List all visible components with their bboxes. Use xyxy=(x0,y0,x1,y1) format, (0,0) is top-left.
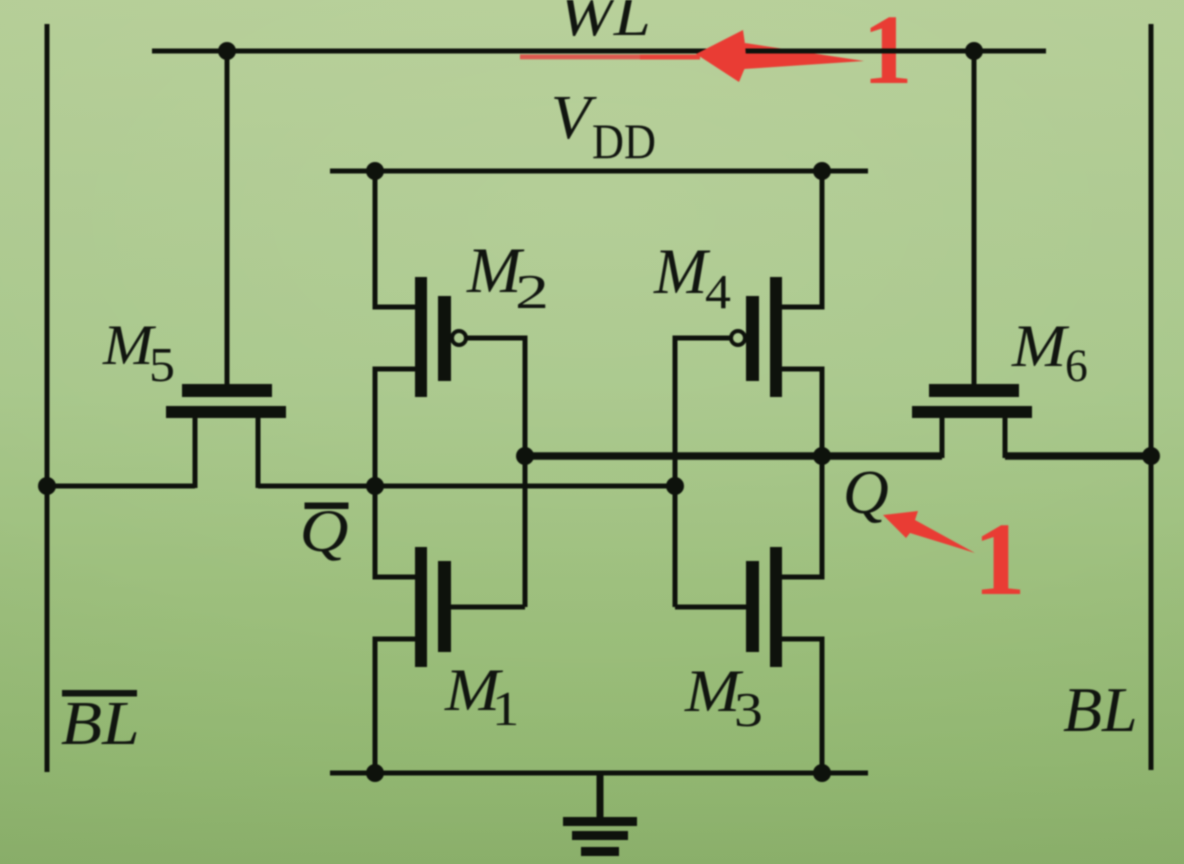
svg-text:Q: Q xyxy=(300,498,349,564)
wire Qbar main (M5 to M4 gate) xyxy=(258,484,680,489)
node BLbar-Qbar junction xyxy=(38,477,56,495)
wire M5 left stub xyxy=(193,418,198,488)
transistor M1 channel plate xyxy=(415,547,427,667)
wire BLbar vertical xyxy=(45,24,50,772)
transistor M5 channel plate xyxy=(166,406,286,418)
node VDD-M2 junction xyxy=(366,162,384,180)
svg-text:5: 5 xyxy=(149,337,175,392)
svg-text:BL: BL xyxy=(1063,675,1138,745)
node ground-M3 junction xyxy=(813,764,831,782)
transistor M4 gate plate xyxy=(746,296,759,381)
label BLbar overbar xyxy=(62,690,137,697)
node Qbar-M4gate junction xyxy=(666,477,684,495)
node Q-M2gate junction xyxy=(516,447,534,465)
red annotation arrow tail on WL xyxy=(520,43,864,69)
svg-text:BL: BL xyxy=(61,690,140,758)
node Qbar-M1 junction xyxy=(366,477,384,495)
wire M3 gate xyxy=(675,605,746,610)
red annotation arrow at Q xyxy=(883,511,975,553)
transistor M3 gate plate xyxy=(746,561,759,652)
svg-text:4: 4 xyxy=(705,264,731,319)
transistor M5 gate plate xyxy=(182,384,272,397)
label Qbar overbar xyxy=(305,503,349,510)
svg-text:Q: Q xyxy=(843,459,889,527)
wire M3 source to ground rail xyxy=(782,639,822,773)
wire M6 right stub xyxy=(1003,418,1008,458)
wire Q node thick (M2 gate to M6) xyxy=(525,452,942,460)
wire M6 left stub xyxy=(940,418,945,458)
transistor M1 gate plate xyxy=(438,561,451,652)
svg-text:1: 1 xyxy=(492,681,519,736)
wire M6 gate drop xyxy=(972,51,977,384)
wire M5 right stub xyxy=(256,418,261,488)
wire M2 source drop from VDD xyxy=(375,171,415,307)
transistor M2 channel plate xyxy=(415,277,427,397)
svg-text:WL: WL xyxy=(559,0,651,48)
wire M2 gate to Q node xyxy=(467,338,525,607)
transistor M3 channel plate xyxy=(770,547,782,667)
svg-text:6: 6 xyxy=(1065,340,1088,392)
svg-text:2: 2 xyxy=(515,264,549,319)
wire Q to BL (M6 right) xyxy=(1005,452,1151,460)
wire M1 gate xyxy=(451,605,525,610)
wire M5 gate drop xyxy=(225,51,230,384)
node Q-BL junction xyxy=(1142,447,1160,465)
wire Qbar left segment (BLbar to M5) xyxy=(47,484,195,489)
transistor M4 gate bubble xyxy=(731,331,745,345)
wire M2 drain to Qbar xyxy=(375,369,415,486)
transistor M4 channel plate xyxy=(770,277,782,397)
transistor M2 gate bubble xyxy=(452,331,466,345)
node WL-M5 junction xyxy=(218,42,236,60)
wire M4 gate to Qbar node xyxy=(675,338,730,607)
wire M1 source to ground rail xyxy=(375,639,415,773)
node WL-M6 junction xyxy=(965,42,983,60)
wire BL vertical xyxy=(1149,24,1154,770)
svg-text:M: M xyxy=(653,236,711,308)
wire ground stem xyxy=(597,773,604,818)
svg-text:M: M xyxy=(1011,313,1070,379)
transistor M2 gate plate xyxy=(438,296,451,381)
wire WL horizontal xyxy=(152,49,1046,54)
svg-text:3: 3 xyxy=(734,682,763,737)
node ground-M1 junction xyxy=(366,764,384,782)
wire VDD horizontal xyxy=(330,169,868,174)
wire M4 drain to Q xyxy=(782,369,822,456)
ground symbol bars xyxy=(563,817,637,856)
wire M3 drain from Q xyxy=(782,456,822,577)
node Q-M3 junction xyxy=(813,447,831,465)
wire M1 drain from Qbar xyxy=(375,486,415,577)
svg-text:DD: DD xyxy=(592,113,656,169)
red annotation arrowhead on WL xyxy=(696,30,746,82)
wire ground rail xyxy=(330,771,868,776)
svg-text:V: V xyxy=(551,84,597,152)
wire M4 source drop from VDD xyxy=(782,171,822,307)
transistor M6 channel plate xyxy=(912,406,1032,418)
transistor M6 gate plate xyxy=(929,384,1019,397)
svg-text:1: 1 xyxy=(974,502,1026,617)
node VDD-M4 junction xyxy=(813,162,831,180)
